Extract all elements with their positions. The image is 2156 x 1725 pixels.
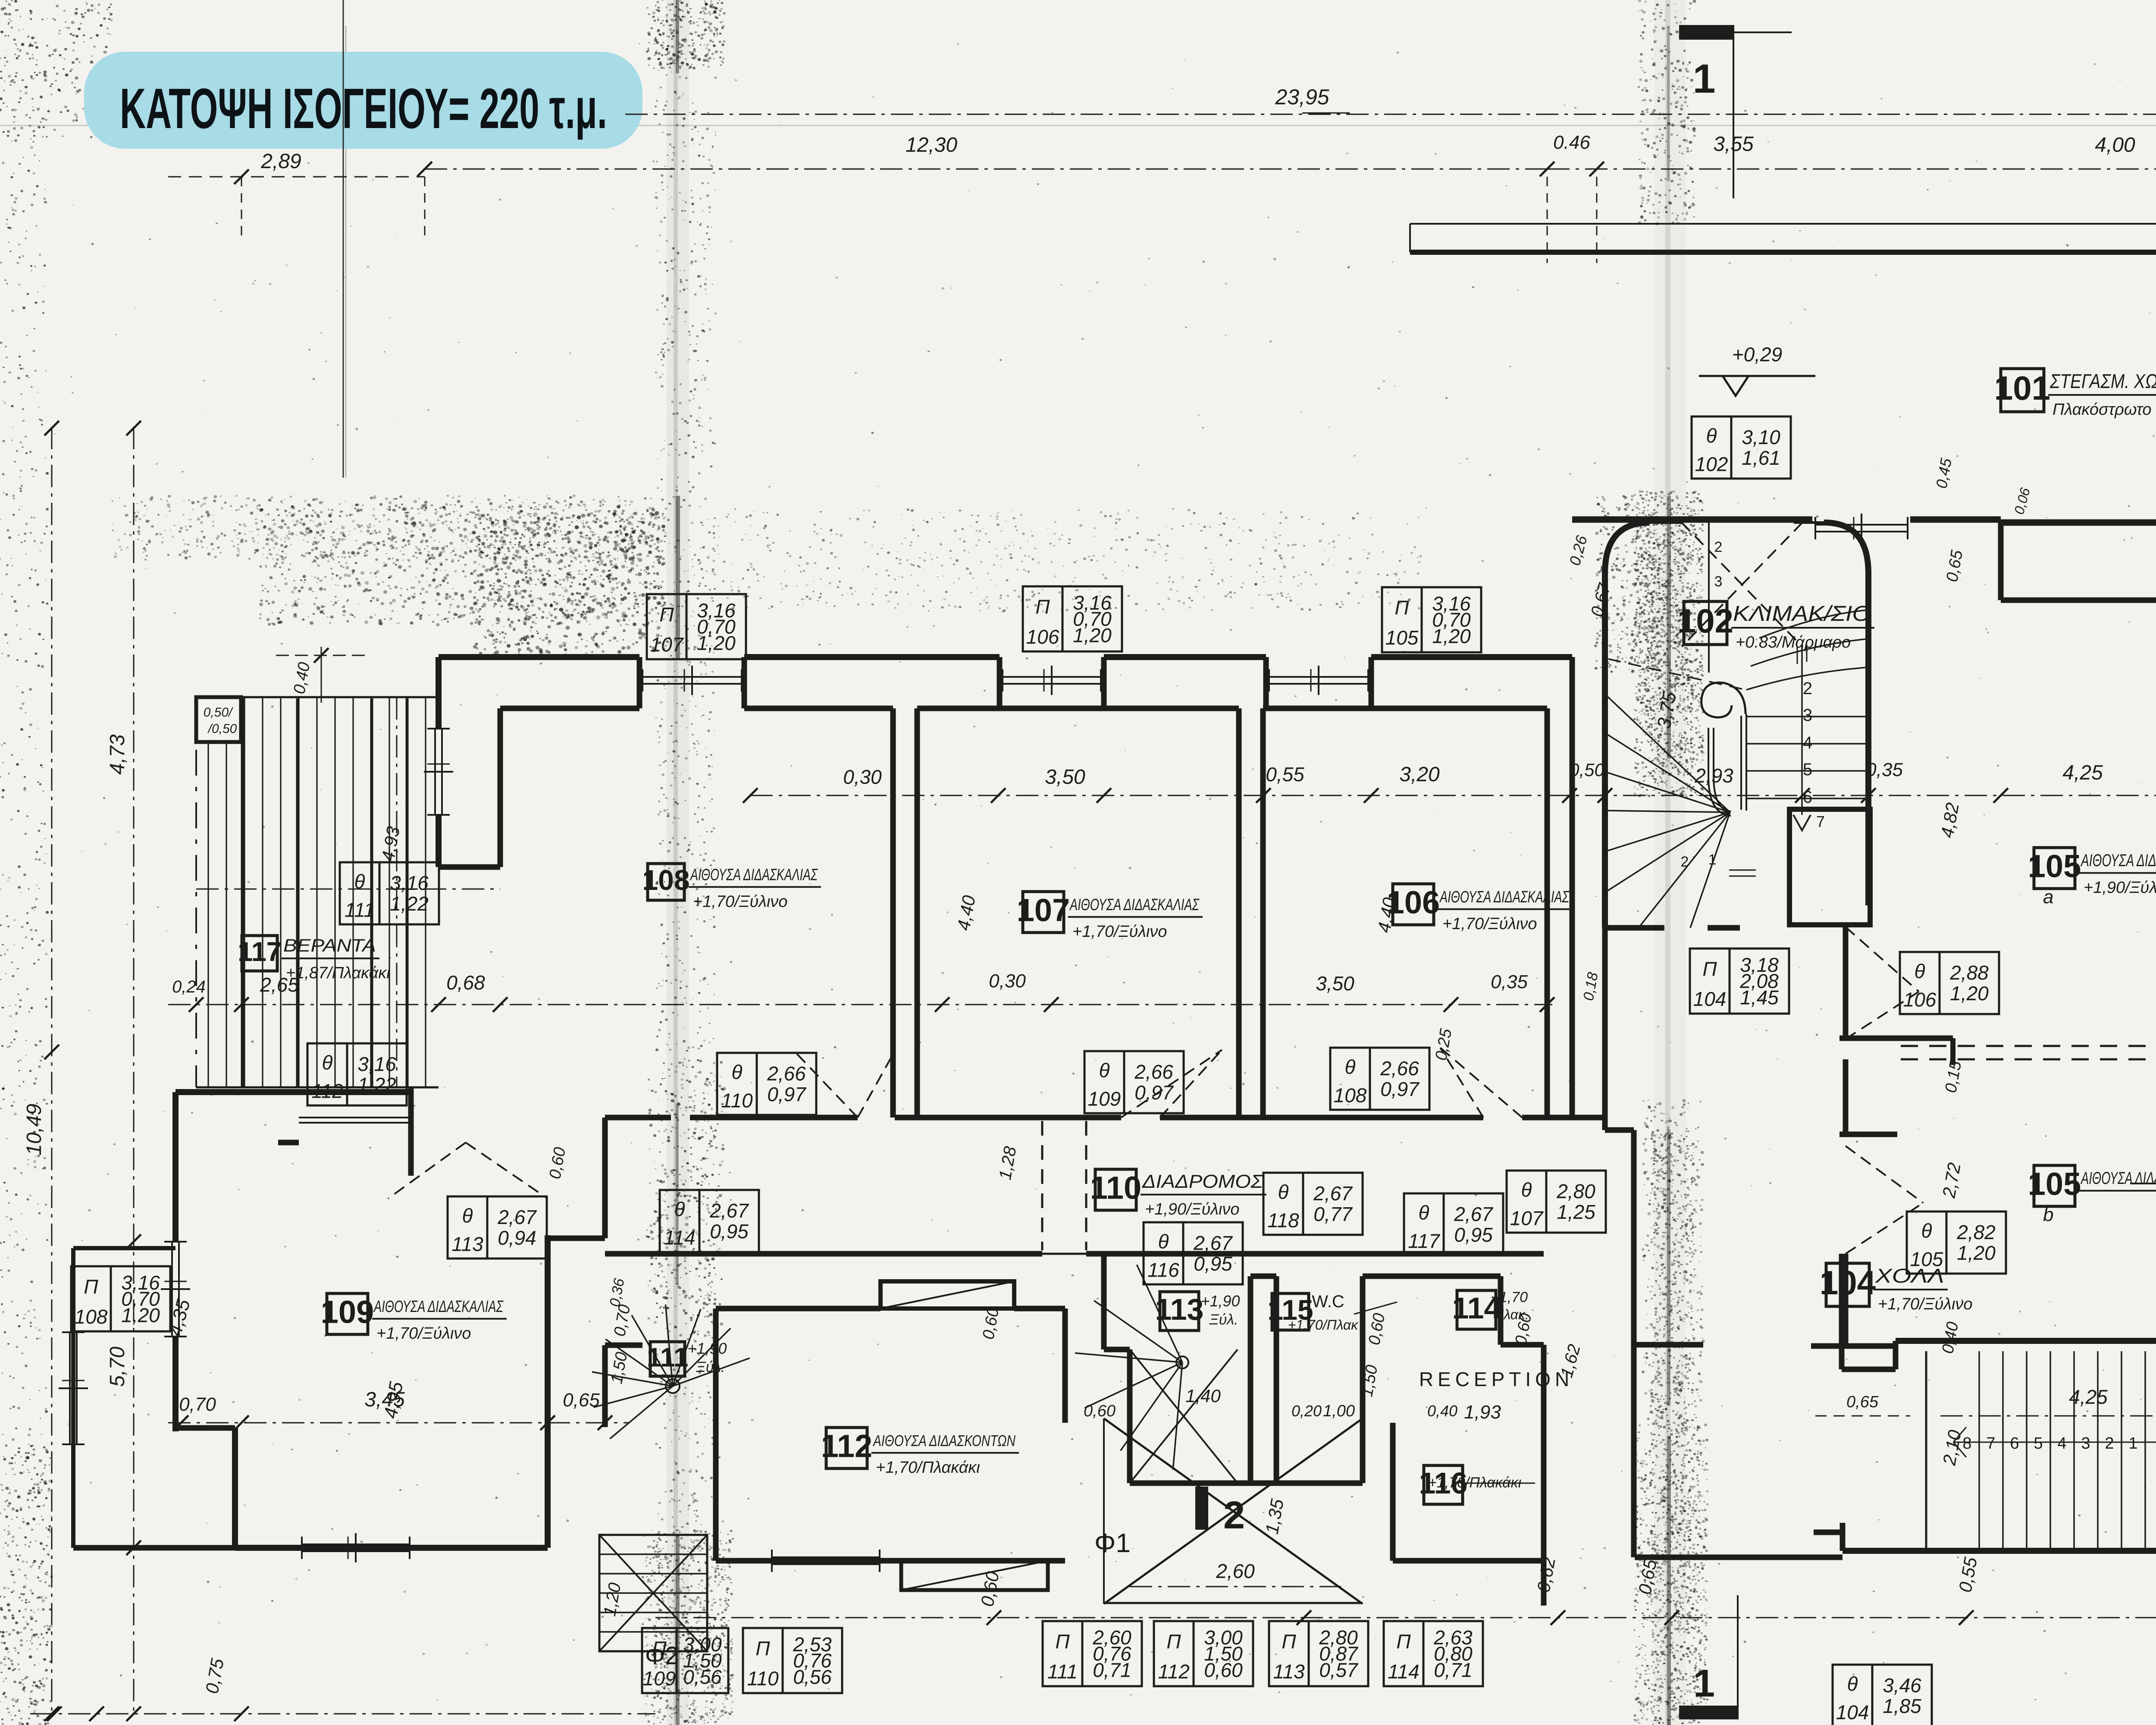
room label 106 aithousa-106: [1387, 884, 1573, 933]
room label 107 aithousa-107: [1017, 892, 1203, 941]
reception 114 walls: [1363, 1276, 1544, 1345]
svg-text:104: 104: [1836, 1701, 1869, 1724]
svg-text:ΑΙΘΟΥΣΑ ΔΙΔΑΣΚΑΛΙΑΣ: ΑΙΘΟΥΣΑ ΔΙΔΑΣΚΑΛΙΑΣ: [1439, 888, 1570, 906]
svg-text:2,66: 2,66: [767, 1062, 806, 1085]
svg-text:Π: Π: [1282, 1630, 1296, 1653]
svg-text:+0,29: +0,29: [1732, 343, 1782, 366]
svg-text:Π: Π: [1055, 1630, 1070, 1653]
dimension chain y=2310 (0,24 2,65 0,68 0,30 3,50 0,35): [168, 971, 1554, 1012]
svg-text:2,89: 2,89: [260, 150, 301, 173]
svg-text:2: 2: [1681, 854, 1689, 870]
interior face line of north wall: [439, 708, 1547, 893]
stair at vestibule 113 fan: [1075, 1265, 1238, 1483]
svg-text:4,73: 4,73: [106, 734, 129, 775]
116 block walls: [1393, 1345, 1544, 1606]
svg-text:2,80: 2,80: [1556, 1180, 1595, 1202]
svg-text:1,25: 1,25: [1557, 1201, 1595, 1223]
svg-text:114: 114: [664, 1227, 695, 1249]
svg-text:2,82: 2,82: [1956, 1221, 1996, 1243]
svg-text:2: 2: [1714, 539, 1723, 555]
label box θ/105 t105: [1907, 1212, 2006, 1274]
scan noise: fold line 1 (x~1580): [667, 0, 689, 1725]
svg-text:+1,70/Ξύλινο: +1,70/Ξύλινο: [1442, 915, 1537, 933]
veranda centerlines: [196, 697, 500, 1087]
svg-text:105: 105: [1910, 1248, 1943, 1271]
svg-text:1,40: 1,40: [1185, 1386, 1221, 1406]
svg-text:RECEPTION: RECEPTION: [1419, 1368, 1573, 1390]
svg-text:109: 109: [643, 1667, 676, 1690]
svg-text:2,67: 2,67: [497, 1206, 537, 1228]
label box Π/107 p107: [647, 594, 746, 659]
svg-text:6: 6: [2010, 1434, 2019, 1453]
svg-text:θ: θ: [1521, 1178, 1532, 1201]
interior wall right of 106: [1547, 657, 1572, 1118]
stair F2 (bottom-left): [599, 1535, 707, 1670]
svg-text:+0.83/Μάρμαρο: +0.83/Μάρμαρο: [1736, 633, 1851, 651]
label box Π/112 p112: [1154, 1621, 1253, 1686]
west outer wall of wing (room 109): [175, 1092, 235, 1548]
svg-text:1,20: 1,20: [697, 632, 736, 654]
svg-text:+1,90: +1,90: [687, 1340, 727, 1357]
interior wall between 107 and 106: [1239, 708, 1263, 1118]
small dims misc: [377, 457, 2156, 1467]
fold2 dark core segments: [1667, 26, 1671, 1725]
svg-text:4: 4: [2057, 1434, 2066, 1453]
svg-text:0,60: 0,60: [1204, 1659, 1243, 1681]
veranda thick hatch accents: [242, 698, 407, 1086]
svg-text:0,95: 0,95: [1194, 1252, 1232, 1275]
interior wall between 108 and 107: [893, 708, 917, 1118]
svg-text:0,55: 0,55: [1266, 763, 1304, 786]
wall pilasters north wall: [439, 657, 1371, 867]
room label 113 vest-113: [1155, 1292, 1204, 1331]
svg-text:1,45: 1,45: [1740, 986, 1779, 1008]
svg-text:1,85: 1,85: [1883, 1695, 1921, 1717]
svg-text:ΑΙΘΟΥΣΑ ΔΙΔΑΣΚΑΛΙΑΣ: ΑΙΘΟΥΣΑ ΔΙΔΑΣΚΑΛΙΑΣ: [2081, 851, 2156, 870]
room label 109 aithousa-109: [321, 1293, 507, 1343]
svg-text:/0,50: /0,50: [207, 722, 237, 736]
svg-text:3,46: 3,46: [1883, 1674, 1921, 1697]
svg-text:0,95: 0,95: [710, 1220, 749, 1243]
svg-text:4,25: 4,25: [2069, 1386, 2108, 1408]
svg-text:2: 2: [1223, 1494, 1245, 1537]
svg-text:105: 105: [2028, 848, 2081, 884]
room label 105 aithousa-105a: [2028, 848, 2156, 908]
svg-text:110: 110: [747, 1667, 779, 1690]
svg-text:ΑΙΘΟΥΣΑ ΔΙΔΑΣΚΑΛΙΑΣ: ΑΙΘΟΥΣΑ ΔΙΔΑΣΚΑΛΙΑΣ: [373, 1298, 504, 1316]
door swing room 109: [388, 1143, 548, 1199]
svg-text:112: 112: [1158, 1660, 1189, 1683]
label box Π/113 p113: [1269, 1621, 1368, 1686]
svg-text:110: 110: [1090, 1170, 1141, 1205]
svg-text:θ: θ: [1847, 1672, 1858, 1695]
svg-text:102: 102: [1695, 453, 1728, 476]
dim 0,40 at veranda top: [276, 647, 367, 703]
svg-text:117: 117: [238, 937, 282, 967]
svg-text:Π: Π: [1035, 595, 1050, 618]
svg-text:114: 114: [1388, 1660, 1419, 1683]
svg-text:3,50: 3,50: [1316, 972, 1354, 995]
label box Π/111 p111: [1043, 1621, 1142, 1686]
left vertical dimension lines: [23, 421, 194, 1721]
svg-text:3,16: 3,16: [357, 1053, 396, 1075]
svg-text:+1,70/Πλακάκι: +1,70/Πλακάκι: [876, 1459, 980, 1477]
west porch room: [73, 1248, 235, 1548]
svg-text:ΚΛΙΜΑΚ/ΣΙΟ: ΚΛΙΜΑΚ/ΣΙΟ: [1733, 601, 1871, 626]
label box θ/108 t108: [1330, 1048, 1429, 1110]
svg-text:5,70: 5,70: [106, 1346, 129, 1387]
svg-text:12,30: 12,30: [906, 134, 957, 157]
svg-text:1,20: 1,20: [1432, 625, 1471, 647]
label box θ/112 t112: [307, 1043, 407, 1105]
svg-text:107: 107: [1510, 1207, 1544, 1230]
vestibule 113 and wc 115 walls: [1104, 1254, 1363, 1483]
room label 101 stegasm-xoros: [1994, 369, 2156, 419]
svg-text:0,71: 0,71: [1434, 1659, 1473, 1681]
svg-text:Ξύλ.: Ξύλ.: [696, 1359, 725, 1375]
svg-text:111: 111: [1047, 1660, 1078, 1683]
scan noise: big blotch band upper-left: [112, 496, 663, 560]
svg-text:0,95: 0,95: [1454, 1224, 1493, 1246]
svg-text:118: 118: [1267, 1209, 1299, 1232]
svg-text:0,50/: 0,50/: [204, 705, 233, 720]
svg-text:3,10: 3,10: [1742, 426, 1780, 448]
svg-text:0,68: 0,68: [446, 971, 485, 994]
stair room 102 bottom wall: [1605, 928, 1740, 974]
svg-text:7: 7: [1986, 1434, 1995, 1453]
svg-text:0,97: 0,97: [1380, 1078, 1420, 1100]
label box θ/113 t113: [448, 1196, 547, 1259]
svg-text:+1,90/Ξύλινο: +1,90/Ξύλινο: [1145, 1200, 1240, 1218]
svg-text:θ: θ: [462, 1204, 473, 1227]
svg-text:+1,70/Ξύλινο: +1,70/Ξύλινο: [376, 1324, 471, 1343]
svg-text:Π: Π: [1396, 1630, 1411, 1653]
stair room 102 winding stair: [1605, 610, 1867, 928]
label box θ/104 t104: [1833, 1665, 1932, 1725]
svg-text:0,97: 0,97: [767, 1083, 806, 1105]
room label 105 aithousa-105b: [2028, 1165, 2156, 1225]
svg-text:2,67: 2,67: [1454, 1203, 1493, 1225]
cyan title badge: [84, 52, 642, 149]
svg-text:0,97: 0,97: [1134, 1081, 1174, 1104]
svg-text:0,35: 0,35: [1866, 759, 1903, 780]
svg-text:113: 113: [451, 1233, 483, 1255]
svg-text:3: 3: [1803, 706, 1812, 725]
svg-text:θ: θ: [1419, 1201, 1429, 1224]
svg-text:2,60: 2,60: [1216, 1560, 1255, 1582]
label box Π/104 p104: [1690, 949, 1789, 1014]
svg-text:+1,70/Ξύλινο: +1,70/Ξύλινο: [1072, 923, 1167, 941]
svg-text:θ: θ: [1278, 1180, 1289, 1203]
svg-text:1,93: 1,93: [1464, 1402, 1501, 1423]
svg-text:3,16: 3,16: [390, 872, 429, 894]
veranda 117 hatched deck: [196, 697, 439, 1087]
svg-text:1,22: 1,22: [390, 892, 429, 915]
svg-text:0,56: 0,56: [683, 1666, 722, 1688]
room label 102 klimakostasio: [1677, 601, 1874, 651]
svg-text:Φ1: Φ1: [1094, 1528, 1131, 1558]
svg-text:1,20: 1,20: [121, 1304, 160, 1326]
dimension chain y=1845 (0,30 3,50 0,55 3,20 0,50 2,93 0,35 4,25 0,70): [743, 759, 2156, 803]
room label 108 aithousa-108: [642, 864, 821, 911]
svg-text:Π: Π: [1395, 596, 1409, 619]
svg-text:W.C: W.C: [1312, 1292, 1344, 1311]
door swings rooms 105a/105: [1846, 927, 1923, 1254]
svg-text:θ: θ: [1158, 1230, 1169, 1252]
stair room 102 rounded walls: [1605, 523, 1868, 928]
svg-text:106: 106: [1026, 626, 1059, 648]
svg-text:Π: Π: [1702, 958, 1717, 980]
label box Π/109 p109: [642, 1628, 728, 1693]
svg-text:ΒΕΡΑΝΤΑ: ΒΕΡΑΝΤΑ: [283, 935, 376, 955]
svg-text:1: 1: [1693, 1662, 1715, 1705]
room label 117 veranta-117: [238, 935, 390, 982]
svg-text:3: 3: [2081, 1434, 2090, 1453]
svg-text:θ: θ: [322, 1051, 333, 1074]
svg-text:0,94: 0,94: [498, 1227, 536, 1249]
corridor 110 north wall: [605, 1115, 1605, 1121]
svg-text:3,50: 3,50: [1045, 766, 1085, 789]
corridor 110 south wall: [605, 1251, 1544, 1257]
right wing NE inner wall line: [2001, 520, 2156, 600]
label box Π/108 p108: [71, 1266, 170, 1331]
svg-text:+1,90: +1,90: [1200, 1292, 1240, 1310]
svg-text:Ξύλ.: Ξύλ.: [1209, 1312, 1238, 1328]
svg-text:109: 109: [321, 1294, 374, 1330]
room label 111 stair-111: [647, 1342, 689, 1376]
svg-text:4,00: 4,00: [2095, 134, 2135, 157]
svg-text:107: 107: [1017, 892, 1070, 928]
svg-text:110: 110: [721, 1089, 753, 1112]
section marker 1 (top): [1679, 25, 1792, 102]
svg-text:1,20: 1,20: [1957, 1242, 1996, 1264]
svg-text:0,30: 0,30: [843, 766, 882, 788]
svg-text:0,20: 0,20: [1291, 1402, 1322, 1420]
label box θ/111 t111: [340, 862, 439, 924]
label box θ/107 t107: [1507, 1171, 1606, 1233]
portico / boundary top right: [1410, 224, 2156, 538]
svg-text:113: 113: [1155, 1293, 1204, 1326]
svg-text:1: 1: [2128, 1434, 2137, 1453]
svg-text:2,67: 2,67: [709, 1199, 749, 1222]
svg-text:0,60: 0,60: [1084, 1402, 1116, 1420]
svg-text:0,65: 0,65: [1846, 1393, 1879, 1411]
north exterior wall of classrooms (left wing): [439, 654, 1572, 660]
svg-text:108: 108: [1334, 1084, 1367, 1107]
svg-text:2: 2: [2105, 1434, 2114, 1453]
svg-text:105: 105: [2028, 1166, 2081, 1202]
room label 115 wc-115: [1267, 1293, 1313, 1330]
svg-text:ΑΙΘΟΥΣΑ ΔΙΔΑΣΚ.: ΑΙΘΟΥΣΑ ΔΙΔΑΣΚ.: [2081, 1169, 2156, 1188]
label box θ/118 t118: [1263, 1173, 1363, 1235]
svg-text:ΑΙΘΟΥΣΑ ΔΙΔΑΣΚΑΛΙΑΣ: ΑΙΘΟΥΣΑ ΔΙΔΑΣΚΑΛΙΑΣ: [690, 866, 818, 884]
svg-text:0,40: 0,40: [1427, 1402, 1457, 1420]
svg-text:Π: Π: [755, 1637, 770, 1659]
svg-text:0,56: 0,56: [793, 1666, 832, 1688]
svg-text:102: 102: [1677, 602, 1733, 640]
reception text: [1419, 1368, 1573, 1423]
svg-text:+1,87/Πλακάκι: +1,87/Πλακάκι: [286, 964, 390, 982]
svg-text:2,67: 2,67: [1193, 1232, 1233, 1254]
svg-text:+1,70/Πλακ: +1,70/Πλακ: [1288, 1317, 1359, 1333]
svg-text:θ: θ: [732, 1061, 743, 1083]
svg-text:0,35: 0,35: [1491, 971, 1528, 992]
stair 111 fan: [592, 1305, 750, 1439]
svg-text:a: a: [2043, 886, 2053, 908]
dimension chain y=388 (2,89 / 12,30 / 0,46 / 3,55 / 4,00 / 0,75 / 0,10): [168, 34, 2156, 263]
svg-text:θ: θ: [1099, 1059, 1110, 1081]
svg-text:107: 107: [650, 633, 684, 656]
svg-text:3: 3: [1714, 573, 1723, 590]
svg-text:θ: θ: [1921, 1219, 1932, 1242]
label box θ/109 t109: [1084, 1051, 1184, 1113]
entrance stair (8 steps): [1926, 1351, 2156, 1551]
dashed passage in corridor: [1042, 1121, 1086, 1250]
svg-text:112: 112: [311, 1080, 343, 1102]
door swings from classrooms to corridor: [794, 1048, 1522, 1118]
label box θ/116 t116: [1144, 1222, 1243, 1284]
svg-text:1,20: 1,20: [1950, 982, 1989, 1005]
svg-text:θ: θ: [1706, 424, 1717, 447]
svg-text:Π: Π: [84, 1275, 98, 1298]
svg-text:3,20: 3,20: [1399, 763, 1440, 786]
right wing north wall: [1572, 520, 2156, 538]
svg-text:108: 108: [642, 864, 689, 896]
svg-text:1,61: 1,61: [1742, 447, 1780, 469]
svg-text:ΔΙΑΔΡΟΜΟΣ: ΔΙΑΔΡΟΜΟΣ: [1142, 1171, 1264, 1192]
room label 116 116: [1419, 1465, 1468, 1504]
svg-text:0,71: 0,71: [1093, 1659, 1131, 1681]
svg-text:ΑΙΘΟΥΣΑ ΔΙΔΑΣΚΟΝΤΩΝ: ΑΙΘΟΥΣΑ ΔΙΔΑΣΚΟΝΤΩΝ: [872, 1432, 1015, 1450]
svg-text:+1,70/Ξύλινο: +1,70/Ξύλινο: [1878, 1295, 1973, 1313]
wall between hall and rooms 105a/105: [1789, 809, 1953, 1346]
svg-text:0,57: 0,57: [1319, 1659, 1358, 1681]
label box Π/114 p114: [1384, 1621, 1483, 1686]
entrance porch south wall: [1811, 1346, 2156, 1551]
svg-text:2,88: 2,88: [1949, 961, 1989, 984]
level mark +0,29: [1699, 343, 1815, 396]
svg-text:2,66: 2,66: [1134, 1061, 1173, 1083]
dimension chain y=3290 (0,70 3,45 0,65): [168, 1388, 630, 1430]
scan noise: fold line 2 (x~3870): [1654, 0, 1686, 1725]
svg-text:ΚΑΤΟΨΗ ΙΣΟΓΕΙΟΥ= 220 τ.μ.: ΚΑΤΟΨΗ ΙΣΟΓΕΙΟΥ= 220 τ.μ.: [120, 77, 607, 140]
label box θ/106 t106: [1900, 952, 1999, 1014]
svg-text:1,20: 1,20: [1073, 624, 1112, 646]
svg-text:Πλακόστρωτο: Πλακόστρωτο: [2053, 401, 2152, 419]
svg-text:1: 1: [1693, 56, 1716, 102]
svg-text:b: b: [2043, 1204, 2053, 1225]
svg-text:117: 117: [1408, 1230, 1440, 1252]
folding partition between 105a and 105: [1901, 1036, 2156, 1065]
svg-text:108: 108: [75, 1305, 108, 1328]
label box Π/110 p110: [743, 1628, 842, 1693]
svg-text:0,30: 0,30: [989, 971, 1026, 992]
svg-text:104: 104: [1693, 988, 1727, 1010]
svg-text:23,95: 23,95: [1275, 85, 1329, 109]
svg-text:2,66: 2,66: [1380, 1057, 1419, 1080]
dimension chain top (23,95): [625, 85, 2156, 122]
svg-text:104: 104: [1820, 1264, 1876, 1302]
svg-text:113: 113: [1273, 1660, 1305, 1683]
svg-text:5: 5: [1803, 760, 1812, 779]
svg-text:0,70: 0,70: [179, 1394, 216, 1415]
svg-text:106: 106: [1903, 989, 1937, 1011]
section marker 1 bottom: [1679, 1595, 1739, 1719]
svg-text:+1,70/Ξύλινο: +1,70/Ξύλινο: [693, 892, 788, 911]
svg-text:θ: θ: [1345, 1055, 1356, 1078]
label box Π/105 p105: [1382, 587, 1481, 652]
room label 110 diadromos-110: [1090, 1169, 1266, 1218]
south outer wall pieces of left wing: [740, 1561, 1048, 1590]
south rooms: 112 walls: [716, 1281, 1065, 1561]
stray pencil construction line: [343, 0, 344, 478]
svg-text:5: 5: [2034, 1434, 2043, 1453]
windows in north wall: [642, 666, 742, 695]
section marker 2 (at F1): [1195, 1487, 1245, 1537]
room 109 walls: [175, 1087, 605, 1548]
svg-text:111: 111: [345, 899, 375, 921]
svg-text:θ: θ: [354, 870, 365, 892]
svg-text:112: 112: [821, 1428, 872, 1464]
label box θ/110 t110: [717, 1053, 816, 1115]
entrance hall F1 big cross: [1094, 1418, 1363, 1604]
svg-text:10,49: 10,49: [23, 1104, 46, 1155]
svg-text:θ: θ: [674, 1198, 685, 1220]
stair room 102 top opening dashes: [1682, 523, 1802, 673]
svg-text:ΑΙΘΟΥΣΑ ΔΙΔΑΣΚΑΛΙΑΣ: ΑΙΘΟΥΣΑ ΔΙΔΑΣΚΑΛΙΑΣ: [1069, 896, 1200, 914]
room label 114 rec-114: [1452, 1290, 1501, 1329]
room label 112 aithousa-112: [821, 1428, 1019, 1477]
label box θ/102 window102: [1692, 416, 1791, 479]
svg-text:105: 105: [1385, 626, 1419, 649]
bottom dimension line y=3724: [30, 1556, 2156, 1721]
svg-text:2: 2: [1803, 679, 1812, 698]
stray pencil line over badge: [343, 0, 344, 478]
svg-text:7: 7: [1816, 813, 1825, 830]
label box θ/117 t117: [1404, 1193, 1503, 1255]
svg-text:1: 1: [1708, 852, 1717, 868]
svg-text:111: 111: [647, 1343, 689, 1373]
label box θ/114 t114: [660, 1190, 759, 1252]
scan artifact: faint horizontal line: [0, 125, 2156, 126]
svg-text:Π: Π: [1166, 1630, 1181, 1653]
svg-text:6: 6: [1803, 788, 1812, 807]
svg-text:4,25: 4,25: [2062, 761, 2103, 784]
svg-text:0.46: 0.46: [1553, 132, 1590, 153]
svg-text:ΣΤΕΓΑΣΜ. ΧΩΡΟΣ: ΣΤΕΓΑΣΜ. ΧΩΡΟΣ: [2049, 370, 2156, 392]
label box Π/106 p106: [1023, 586, 1122, 651]
svg-text:116: 116: [1147, 1259, 1179, 1281]
svg-text:1,00: 1,00: [1323, 1402, 1355, 1420]
veranda corner post 0,50/0,50: [196, 697, 241, 742]
svg-text:Π: Π: [659, 603, 674, 626]
svg-text:θ: θ: [1915, 960, 1925, 982]
svg-text:Π: Π: [652, 1637, 667, 1659]
hall 104 west wall: [1605, 928, 1843, 1557]
svg-text:+1,70: +1,70: [1491, 1289, 1528, 1305]
svg-text:1,22: 1,22: [357, 1074, 396, 1096]
svg-text:2,67: 2,67: [1313, 1182, 1353, 1205]
svg-text:4: 4: [1803, 733, 1812, 752]
bottom wall of room 105: [1842, 1254, 2156, 1369]
scan noise: left margin speckle: [0, 6, 47, 1724]
svg-text:109: 109: [1088, 1088, 1121, 1110]
room label 104 xoll: [1820, 1263, 1973, 1313]
svg-text:101: 101: [1994, 369, 2050, 407]
svg-text:0,77: 0,77: [1313, 1203, 1353, 1225]
svg-text:+1,90/Ξύλινο: +1,90/Ξύλινο: [2084, 879, 2156, 897]
